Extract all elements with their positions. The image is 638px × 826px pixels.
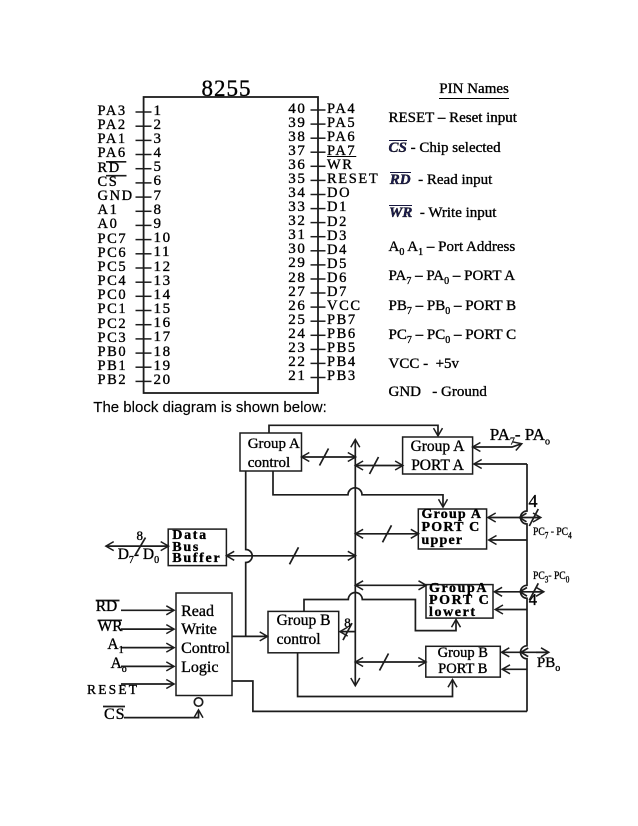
bus slash (370, 457, 379, 474)
wire: A0 input arrow (121, 665, 174, 667)
pin 6 number (154, 174, 163, 189)
label A0 input (111, 656, 127, 675)
inverting bubble on CS pin (194, 698, 202, 706)
pin 24 label PB6 (327, 327, 357, 342)
box Group A PORT C upper (418, 509, 486, 549)
box Group A PORT A (403, 437, 473, 474)
pin 40 number (277, 102, 307, 117)
pin 9 label A0 (98, 217, 119, 232)
pin 4 number (154, 146, 163, 161)
wire: right bus into PORT B lower arrow (503, 668, 528, 670)
wire: D7-D0 external arrow into Data Bus Buffer (106, 545, 168, 547)
pin 36 label WR (327, 158, 354, 173)
label GroupA PORT C lowert (429, 583, 490, 619)
right pin ticks 21-40 (311, 110, 326, 378)
pin 7 label GND (98, 189, 134, 204)
pin 5 number (154, 160, 163, 175)
pin 30 label D4 (327, 243, 348, 258)
bus slash (320, 449, 329, 466)
pin name A0 A1 (389, 240, 516, 258)
wire: Group A control bottom to Group B path (left drop) (246, 471, 253, 636)
box Data Bus Buffer (168, 529, 226, 566)
pin 29 label D5 (327, 257, 348, 272)
label 8 (port b bus) (344, 616, 351, 629)
wire: RESET input arrow (121, 683, 174, 685)
label RESET input (87, 683, 139, 697)
box Read Write Control Logic (176, 593, 232, 696)
pin 37 label PA7 (327, 144, 356, 159)
bus slash (380, 654, 389, 671)
pin 40 label PA4 (327, 102, 356, 117)
pin 34 label DO (327, 186, 351, 201)
pin 5 label RD (98, 161, 121, 176)
pin 19 number (154, 359, 172, 374)
pin name PC (389, 328, 517, 346)
bus slash (529, 583, 538, 600)
label CS input (104, 707, 126, 723)
pin 2 number (154, 118, 163, 133)
chip 8255 body (144, 97, 318, 393)
wire: Group A control bottom to PORT C upper top (273, 471, 443, 507)
pin 3 number (154, 132, 163, 147)
wire: right bus into PORT C upper lower arrow (489, 539, 527, 541)
label Group A PORT A (403, 437, 472, 475)
pin 25 label PB7 (327, 313, 357, 328)
wire: central bus to Group B control (8 bit) (340, 631, 355, 633)
wire: WR input arrow (121, 628, 174, 630)
caption block diagram (93, 400, 326, 415)
pin 15 number (154, 302, 172, 317)
pin 38 number (277, 130, 307, 145)
pin 10 label PC7 (98, 232, 128, 247)
wire: PA7-PA0 external arrow (473, 444, 522, 447)
pin 35 number (277, 172, 307, 187)
pin 22 number (277, 355, 307, 370)
pin 26 number (277, 299, 307, 314)
PIN Names heading (439, 82, 509, 97)
wire: Group B control bottom to PORT B bottom (298, 653, 453, 697)
pin 24 number (277, 327, 307, 342)
pin name RD (390, 172, 493, 188)
wire: Read Write Control Logic to Group B control (232, 635, 267, 637)
wire: PB external arrow into PORT B (502, 651, 549, 653)
pin 33 label D1 (327, 200, 348, 215)
arrowhead: PB bus stub left and right heads (521, 648, 528, 657)
wire: CS input to inverting bubble (124, 710, 199, 717)
pin 30 number (277, 242, 307, 257)
pin 32 number (277, 214, 307, 229)
pin 28 label D6 (327, 271, 348, 286)
pin 17 number (154, 330, 172, 345)
label PC3-PC0 (533, 569, 569, 584)
pin 12 number (154, 260, 172, 275)
wire: central bus to PORT C upper (355, 533, 418, 535)
pin 11 number (154, 245, 172, 260)
pin 32 label D2 (327, 215, 348, 230)
bus slash (529, 509, 538, 526)
pin 2 label PA2 (98, 118, 127, 133)
overline on WR input label (98, 619, 122, 621)
overline on CS input label (103, 706, 125, 708)
pin 9 number (154, 217, 163, 232)
pin 12 label PC5 (98, 260, 128, 275)
wire: central bus to PORT C lower (355, 584, 426, 586)
pin 38 label PA6 (327, 130, 356, 145)
left pin ticks 1-20 (136, 112, 152, 381)
wire: Group A control to central bus (302, 456, 356, 458)
pin 20 label PB2 (98, 373, 128, 388)
bus slash (290, 547, 299, 564)
pin name CS (389, 140, 501, 156)
pin 13 label PC4 (98, 274, 128, 289)
wire: A1 input arrow (121, 647, 174, 649)
pin 21 label PB3 (327, 369, 357, 384)
box Group A control (240, 433, 302, 471)
pin 6 label CS (98, 175, 119, 190)
chip title 8255 (202, 77, 252, 100)
label PC7-PC4 (533, 525, 572, 540)
pin 16 number (154, 316, 172, 331)
pin 19 label PB1 (98, 359, 128, 374)
label PA7 PA0 (490, 426, 550, 447)
wire: Group B control top to PORT C lower bottom (304, 593, 456, 631)
pin 35 label RESET (327, 172, 379, 187)
pin 18 label PB0 (98, 345, 128, 360)
pin 36 number (277, 158, 307, 173)
wire: PC7-PC4 external arrow into PORT C upper (488, 517, 540, 519)
label Group B PORT B (426, 645, 500, 677)
pin 4 label PA6 (98, 146, 127, 161)
box Group B PORT B (426, 646, 501, 677)
pin 14 label PC0 (98, 288, 128, 303)
pin 33 number (277, 200, 307, 215)
wire: central bus to PORT B (355, 661, 426, 663)
wire: PC3-PC0 external arrow into PORT C lower (495, 591, 544, 593)
pin 1 label PA3 (98, 104, 127, 119)
box Group B control (268, 611, 339, 652)
label 8 (data bus width) (137, 529, 144, 542)
pin 22 label PB4 (327, 355, 357, 370)
wire: central bus to PORT A (355, 465, 402, 467)
pin 27 label D7 (327, 285, 348, 300)
pin 8 label A1 (98, 203, 119, 218)
overline on pin5 label RD (106, 161, 126, 163)
pin 7 number (154, 189, 163, 204)
pin 14 number (154, 288, 172, 303)
pin 29 number (277, 256, 307, 271)
pin name PA (389, 269, 516, 287)
pin 20 number (154, 373, 172, 388)
label Group B control (277, 611, 331, 649)
bus slash (383, 525, 392, 542)
label PB0 (537, 656, 560, 674)
pin 31 number (277, 228, 307, 243)
bus slash (136, 538, 146, 555)
pin 26 label VCC (327, 299, 362, 314)
label Group A control (248, 435, 300, 474)
pin name PB (389, 299, 517, 317)
pin 28 number (277, 271, 307, 286)
pin 16 label PC2 (98, 317, 128, 332)
pin name WR (389, 205, 496, 221)
pin 31 label D3 (327, 229, 348, 244)
pin 15 label PC1 (98, 302, 128, 317)
label Data Bus Buffer (172, 530, 221, 565)
overline on RD input label (96, 600, 120, 602)
bus slash (343, 623, 352, 640)
pin name RESET (389, 111, 517, 126)
wire: central internal bus vertical (354, 440, 356, 686)
pin 13 number (154, 274, 172, 289)
pin 1 number (154, 104, 163, 119)
wire: right bus into PORT A (474, 463, 527, 465)
pin 39 number (277, 116, 307, 131)
pin 34 number (277, 186, 307, 201)
label RD input (96, 599, 118, 615)
pin 23 number (277, 341, 307, 356)
box GroupA PORT C lower (426, 585, 493, 619)
pin name GND (389, 385, 487, 400)
pin 27 number (277, 285, 307, 300)
pin 17 label PC3 (98, 331, 128, 346)
wire: Data Bus Buffer to central bus (226, 555, 355, 557)
wire: Read Write Control Logic to bottom rail (232, 681, 527, 711)
wire: right bus into PORT C lower lower arrow (496, 609, 528, 611)
wire: Group A control top to PORT A top (269, 425, 438, 435)
pin 39 label PA5 (327, 116, 356, 131)
wire: RD input arrow (121, 609, 174, 611)
pin 10 number (154, 231, 172, 246)
label 4 (upper nibble) (529, 492, 538, 510)
pin 3 label PA1 (98, 132, 127, 147)
pin 21 number (277, 369, 307, 384)
pin 18 number (154, 345, 172, 360)
label Read Write Control Logic (181, 603, 230, 678)
label Group A PORT C upper (422, 508, 483, 547)
label 4 (lower nibble) (529, 592, 537, 609)
label WR input (98, 619, 123, 635)
arrowhead: PC3-PC0 bus stub left and right heads (520, 588, 527, 597)
wire: right external bus vertical (521, 464, 528, 711)
pin 8 number (154, 203, 163, 218)
overline on pin6 label CS (106, 175, 127, 177)
label D7-D0 (118, 547, 159, 566)
pin 23 label PB5 (327, 341, 357, 356)
pin 25 number (277, 313, 307, 328)
pin 37 number (277, 144, 307, 159)
label A1 input (107, 637, 123, 656)
pin 11 label PC6 (98, 246, 128, 261)
arrowhead: PC7-PC4 bus stub left head (519, 513, 526, 522)
pin name VCC (389, 357, 460, 372)
